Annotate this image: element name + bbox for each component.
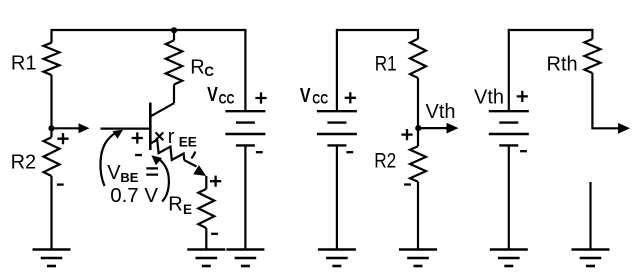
resistor R1 (left circuit)	[44, 43, 60, 75]
wire RC to collector	[173, 85, 175, 104]
resistor RE	[198, 189, 214, 228]
resistor R2 (middle circuit)	[410, 146, 426, 182]
equals sign	[146, 168, 158, 174]
svg-text:Rth: Rth	[547, 53, 578, 75]
curved arrow VBE to base (+)	[100, 131, 118, 186]
wire top rail middle circuit	[337, 29, 418, 31]
ground (output reference, right circuit)	[572, 250, 610, 267]
curved arrow 0.7V to emitter (-)	[159, 159, 169, 202]
plus sign R2 top (middle)	[401, 129, 412, 140]
svg-text:R1: R1	[11, 52, 37, 74]
wire R1 to node	[50, 75, 52, 128]
node Vth junction dot	[415, 125, 421, 131]
svg-text:R2: R2	[374, 149, 396, 173]
wire R1 to node (middle)	[417, 78, 419, 128]
resistor R2 (left circuit)	[44, 137, 60, 176]
arrow output (right circuit)	[618, 123, 630, 134]
plus sign RE top	[210, 176, 221, 187]
svg-text:C: C	[204, 64, 214, 79]
ground (VCC battery left)	[226, 250, 264, 267]
ground (Vth battery)	[490, 250, 528, 267]
svg-text:EE: EE	[179, 134, 197, 149]
svg-text:R: R	[168, 194, 182, 216]
wire emitter arrow to RE	[205, 176, 207, 189]
wire top rail left circuit	[52, 29, 246, 31]
minus sign VCC battery	[256, 151, 263, 153]
wire rail to VCC battery (middle)	[336, 29, 338, 111]
wire VCC battery to ground (middle)	[336, 145, 338, 249]
transistor Q1 base bar	[149, 103, 152, 150]
battery VCC (left circuit)	[225, 111, 265, 145]
wire left branch upper (rail to R1)	[50, 29, 52, 43]
wire rail to R1 (middle)	[417, 29, 419, 39]
svg-text:R2: R2	[11, 152, 37, 174]
plus sign R2 top	[57, 133, 68, 144]
wire rail to Vth battery	[508, 29, 510, 111]
minus sign RE bottom	[211, 233, 218, 235]
wire Vth battery to ground	[508, 145, 510, 249]
node divider junction dot	[48, 125, 54, 131]
minus sign R2 bottom	[57, 183, 64, 185]
wire RC branch (rail dot to RC)	[173, 30, 175, 40]
svg-text:CC: CC	[312, 92, 328, 107]
ground (RE)	[187, 250, 225, 267]
svg-text:R: R	[190, 56, 204, 78]
svg-text:V: V	[107, 162, 121, 184]
minus sign VCC battery (middle)	[346, 151, 353, 153]
minus sign Vth battery	[520, 150, 527, 152]
wire floating ground stem (right circuit)	[589, 182, 591, 249]
svg-text:Vth: Vth	[474, 86, 504, 108]
plus sign Vth battery	[517, 91, 528, 102]
node junction dot top rail / RC branch	[171, 27, 177, 33]
resistor rEE (emitter small-signal resistance, diagonal)	[151, 140, 184, 160]
wire rail to Rth	[591, 29, 593, 39]
svg-text:R1: R1	[375, 52, 397, 76]
x mark emitter junction	[156, 132, 164, 140]
tick mark on emitter	[191, 152, 195, 159]
transistor Q1 collector lead	[151, 103, 174, 116]
resistor Rth	[584, 39, 600, 73]
wire VCC battery to ground	[244, 145, 246, 249]
wire R2 to ground (middle)	[417, 182, 419, 249]
ground (R2 middle)	[399, 250, 437, 267]
arrow from divider node toward base	[52, 127, 80, 129]
ground (left divider)	[33, 250, 71, 267]
minus sign R2 bottom (middle)	[404, 183, 411, 185]
transistor Q1 emitter lead with arrow	[184, 160, 196, 166]
battery Vth (right circuit)	[489, 111, 529, 145]
plus sign VCC battery	[255, 92, 266, 103]
wire R2 to ground	[50, 176, 52, 249]
svg-text:V: V	[300, 84, 311, 106]
resistor R1 (middle circuit)	[410, 39, 426, 78]
svg-text:Vth: Vth	[426, 101, 456, 123]
svg-text:V: V	[207, 83, 218, 105]
svg-text:0.7 V: 0.7 V	[110, 184, 158, 207]
ground (VCC battery middle)	[318, 250, 356, 267]
battery VCC (middle circuit)	[317, 111, 357, 145]
svg-text:E: E	[183, 202, 192, 217]
wire base lead	[101, 128, 150, 130]
plus sign VCC battery (middle)	[345, 92, 356, 103]
svg-text:BE: BE	[120, 170, 138, 185]
resistor RC	[166, 40, 183, 84]
wire Rth to output corner	[592, 73, 618, 128]
minus sign base-emitter -	[135, 154, 142, 156]
plus sign base-emitter +	[132, 132, 143, 143]
arrow Vth output	[418, 127, 446, 129]
wire node to R2	[50, 128, 52, 137]
svg-text:CC: CC	[219, 91, 235, 106]
wire top rail right circuit	[509, 29, 593, 31]
svg-text:r: r	[168, 126, 175, 148]
wire node to R2 (middle)	[417, 128, 419, 146]
wire RE to ground	[205, 228, 207, 249]
wire rail to VCC battery	[244, 29, 246, 111]
